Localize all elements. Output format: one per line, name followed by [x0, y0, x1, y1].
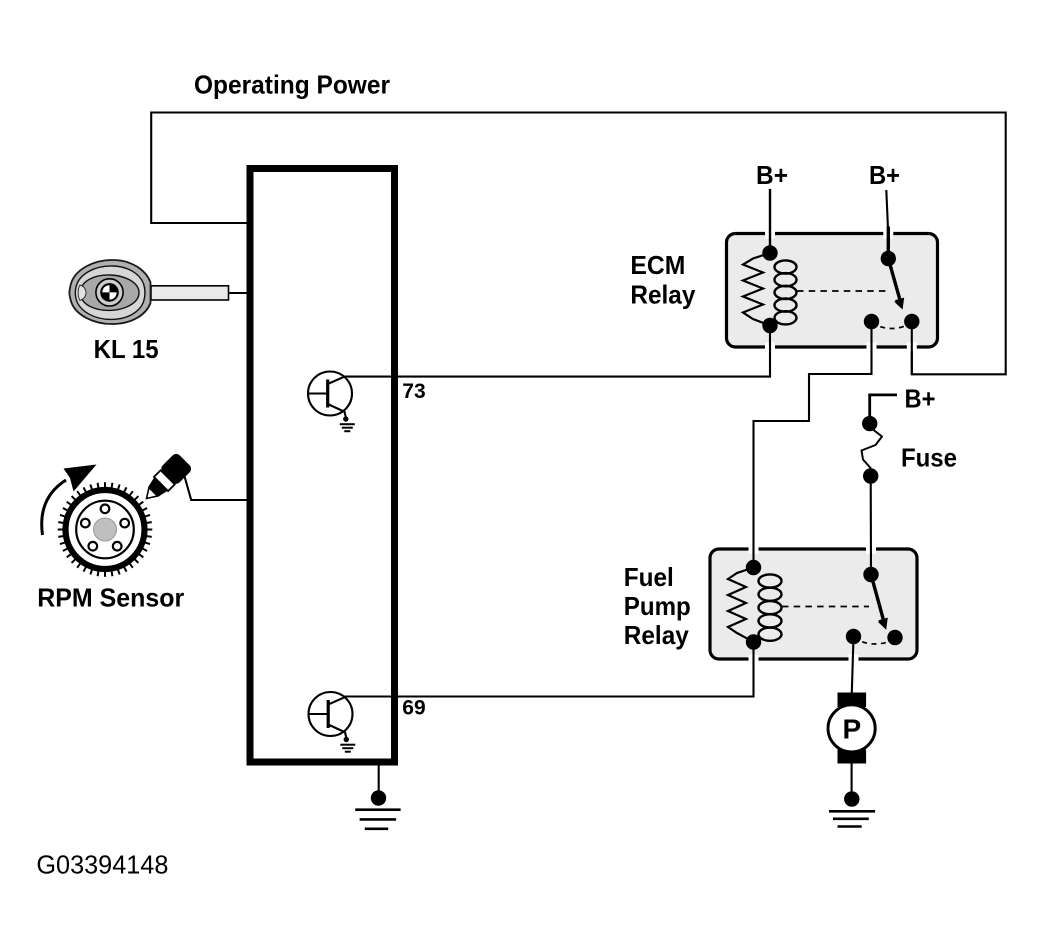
RPM sensor toothed wheel: [58, 482, 153, 577]
wire gaps in ECM relay border: [770, 229, 912, 352]
svg-text:Operating Power: Operating Power: [194, 70, 390, 100]
svg-text:Relay: Relay: [624, 620, 689, 650]
node ECM relay common (pin 87): [864, 314, 879, 329]
fuse F1: [862, 416, 883, 484]
ground (ECU): [355, 790, 400, 829]
resistor (fuel pump relay coil shunt): [728, 568, 754, 643]
resistor (ECM relay coil shunt): [743, 253, 770, 326]
wire key KL15 to ECU: [228, 292, 247, 294]
wire B+ stub to fuse: [870, 395, 897, 424]
wire B+ to ECM relay switch: [886, 190, 888, 236]
transistor 73 (driver inside ECU): [308, 372, 352, 417]
relay K2 fuel pump relay box: [710, 549, 917, 659]
node fuel pump relay common: [846, 629, 861, 644]
wire dashed NC arc (ECM relay): [872, 323, 912, 329]
svg-text:G03394148: G03394148: [36, 850, 168, 880]
RPM sensor probe: [138, 452, 193, 507]
wire ECU to chassis ground: [378, 765, 380, 798]
node ECM relay switch input (pin 30): [881, 251, 896, 266]
wire dashed NC arc (fuel pump relay): [854, 638, 896, 644]
label ECM Relay: [630, 250, 695, 310]
label Fuel Pump Relay: [624, 562, 691, 650]
svg-text:Pump: Pump: [624, 591, 691, 621]
svg-text:Fuel: Fuel: [624, 562, 674, 592]
wire fuel pump relay to pump motor: [852, 637, 854, 693]
svg-text:Fuse: Fuse: [901, 443, 957, 473]
svg-text:B+: B+: [869, 160, 900, 190]
node fuel pump relay coil top: [746, 560, 761, 575]
svg-text:B+: B+: [756, 160, 788, 190]
wire B+ to ECM relay coil: [769, 189, 771, 253]
svg-text:B+: B+: [905, 384, 936, 414]
ground (fuel pump): [829, 791, 875, 826]
key KL 15: [69, 260, 228, 324]
svg-text:69: 69: [402, 696, 425, 719]
wire transistor 69 to fuel pump relay coil: [345, 642, 754, 697]
switch arm (fuel pump relay): [871, 575, 888, 630]
transistor 69 (driver inside ECU): [309, 692, 353, 737]
coil (ECM relay winding): [775, 260, 797, 324]
wire dashed actuation link (fuel pump relay): [782, 606, 869, 608]
node fuel pump relay switch input: [863, 567, 878, 582]
ground (transistor 73 emitter): [340, 416, 355, 431]
ECU control unit box: [250, 169, 395, 763]
coil (fuel pump relay winding): [759, 574, 782, 640]
ground (transistor 69 emitter): [340, 737, 355, 752]
wire ECM relay common to fuel pump relay coil: [754, 322, 872, 568]
node fuel pump relay output: [887, 630, 902, 645]
wire ECM relay output to operating power rail: [911, 322, 913, 375]
fuel pump motor M1: [828, 693, 875, 764]
svg-text:ECM: ECM: [630, 250, 685, 280]
wire operating power net: ECU pin to relay 87 output loop: [151, 113, 1006, 375]
svg-text:RPM Sensor: RPM Sensor: [37, 583, 184, 613]
node ECM relay coil top (pin 86): [762, 245, 777, 260]
wire pump motor to ground: [851, 764, 853, 800]
svg-text:73: 73: [402, 380, 425, 403]
node fuel pump relay coil bottom: [746, 634, 761, 649]
svg-text:KL 15: KL 15: [94, 334, 159, 364]
RPM sensor rotation arrow: [42, 465, 97, 536]
node ECM relay output (pin 87a): [904, 314, 919, 329]
relay K1 ECM relay box: [727, 234, 938, 348]
node ECM relay coil bottom (pin 85): [762, 318, 777, 333]
wire fuse to fuel pump relay switch: [870, 476, 872, 575]
wire RPM sensor to ECU: [184, 475, 247, 501]
wire transistor 73 to ECM relay coil: [344, 326, 770, 377]
switch arm (ECM relay): [888, 227, 904, 310]
svg-text:Relay: Relay: [630, 280, 695, 310]
wire dashed actuation link (ECM relay): [797, 290, 890, 292]
svg-text:P: P: [842, 714, 861, 745]
wire gaps in fuel pump relay border: [754, 545, 872, 664]
